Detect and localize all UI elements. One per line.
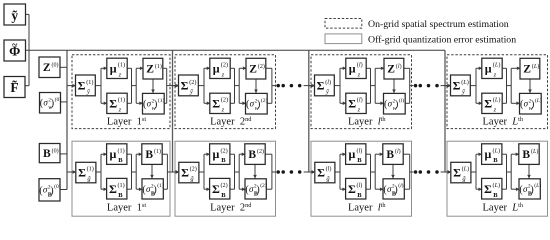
svg-text:): ): [531, 99, 534, 110]
svg-text:(1): (1): [118, 147, 125, 154]
svg-text:B: B: [118, 192, 123, 199]
svg-text:Z: Z: [523, 64, 531, 76]
svg-text:): ): [256, 184, 259, 195]
svg-text:μ: μ: [485, 62, 492, 76]
svg-text:(L): (L): [531, 148, 538, 155]
svg-text:(L): (L): [535, 97, 542, 104]
svg-text:(1): (1): [118, 182, 125, 189]
svg-text:(l): (l): [326, 166, 332, 173]
svg-text:(l): (l): [325, 79, 331, 86]
svg-text:Σ: Σ: [453, 166, 461, 180]
svg-text:μ: μ: [109, 147, 116, 161]
svg-text:Σ: Σ: [348, 182, 356, 196]
svg-text:(L): (L): [461, 79, 469, 86]
svg-text:(L): (L): [493, 182, 501, 189]
svg-text:On-grid spatial spectrum estim: On-grid spatial spectrum estimation: [368, 19, 509, 30]
svg-text:(l): (l): [398, 182, 403, 189]
svg-text:B: B: [145, 149, 153, 161]
svg-text:(l): (l): [357, 97, 363, 104]
svg-text:B: B: [386, 149, 394, 161]
svg-text:Layer lth: Layer lth: [348, 202, 386, 213]
svg-text:(2): (2): [189, 79, 196, 86]
svg-text:Σ: Σ: [181, 79, 189, 93]
svg-text:Layer Lth: Layer Lth: [483, 116, 524, 127]
svg-text:Layer 1st: Layer 1st: [107, 202, 146, 213]
svg-text:(1): (1): [118, 62, 125, 69]
svg-text:(0): (0): [52, 62, 59, 69]
svg-text:B: B: [357, 192, 362, 199]
svg-text:Σ: Σ: [348, 97, 356, 111]
svg-text:(1): (1): [158, 97, 165, 104]
svg-text:(2): (2): [221, 182, 228, 189]
svg-text:Off-grid quantization error es: Off-grid quantization error estimation: [368, 34, 516, 45]
svg-text:Z: Z: [387, 64, 395, 76]
svg-text:μ: μ: [484, 147, 491, 161]
svg-text:(1): (1): [155, 63, 162, 70]
svg-text:Σ: Σ: [181, 166, 189, 180]
svg-text:(0): (0): [55, 96, 62, 103]
svg-text:Σ: Σ: [212, 97, 220, 111]
svg-text:μ: μ: [110, 62, 117, 76]
svg-text:B: B: [221, 157, 226, 164]
svg-text:Σ: Σ: [78, 166, 86, 180]
svg-text:Layer lth: Layer lth: [348, 116, 386, 127]
svg-text:(l): (l): [399, 97, 404, 104]
svg-text:(1): (1): [157, 182, 164, 189]
svg-text:Σ: Σ: [484, 97, 492, 111]
svg-text:B: B: [248, 149, 256, 161]
svg-text:(2): (2): [260, 182, 267, 189]
svg-text:(l): (l): [395, 148, 401, 155]
svg-text:(L): (L): [462, 166, 470, 173]
svg-text:(2): (2): [258, 63, 265, 70]
svg-text:): ): [154, 99, 157, 110]
svg-text:Z: Z: [249, 64, 257, 76]
svg-text:B: B: [522, 149, 530, 161]
svg-text:): ): [257, 99, 260, 110]
svg-text:μ: μ: [348, 147, 355, 161]
svg-text:Σ: Σ: [317, 166, 325, 180]
svg-text:B: B: [43, 148, 51, 160]
svg-text:B: B: [357, 157, 362, 164]
svg-text:z: z: [493, 107, 497, 114]
svg-text:(L): (L): [493, 147, 501, 154]
svg-text:B: B: [493, 192, 498, 199]
svg-text:Layer Lth: Layer Lth: [483, 202, 524, 213]
svg-text:): ): [395, 99, 398, 110]
svg-text:Z: Z: [43, 62, 51, 74]
svg-text:z: z: [357, 107, 361, 114]
svg-text:(L): (L): [493, 62, 501, 69]
svg-text:(L): (L): [532, 63, 539, 70]
svg-text:(1): (1): [118, 97, 125, 104]
svg-text:(L): (L): [534, 182, 541, 189]
svg-text:(L): (L): [493, 97, 501, 104]
svg-text:(2): (2): [221, 97, 228, 104]
svg-text:(2): (2): [190, 166, 197, 173]
svg-text:Σ: Σ: [484, 182, 492, 196]
svg-text:F̃: F̃: [10, 80, 18, 95]
svg-text:(2): (2): [261, 97, 268, 104]
svg-text:): ): [394, 184, 397, 195]
svg-text:B: B: [493, 157, 498, 164]
svg-text:z: z: [221, 107, 225, 114]
svg-text:(0): (0): [52, 147, 59, 154]
svg-text:(2): (2): [221, 147, 228, 154]
svg-text:z: z: [118, 107, 122, 114]
svg-text:(1): (1): [87, 166, 94, 173]
svg-text:Σ: Σ: [109, 97, 117, 111]
svg-text:): ): [51, 98, 54, 109]
svg-text:Σ: Σ: [78, 79, 86, 93]
svg-text:Σ: Σ: [109, 182, 117, 196]
svg-text:Σ: Σ: [317, 79, 325, 93]
svg-text:(l): (l): [357, 62, 363, 69]
svg-text:): ): [50, 185, 53, 196]
svg-text:(l): (l): [357, 182, 363, 189]
svg-text:μ: μ: [213, 62, 220, 76]
svg-text:Σ: Σ: [212, 182, 220, 196]
svg-text:(2): (2): [257, 148, 264, 155]
svg-text:(0): (0): [54, 183, 61, 190]
svg-text:(1): (1): [154, 148, 161, 155]
svg-text:(1): (1): [86, 79, 93, 86]
svg-text:): ): [153, 184, 156, 195]
svg-text:z: z: [357, 72, 361, 79]
svg-text:z: z: [221, 72, 225, 79]
svg-text:z: z: [493, 72, 497, 79]
svg-text:Layer 1st: Layer 1st: [107, 116, 146, 127]
svg-text:B: B: [221, 192, 226, 199]
svg-text:(l): (l): [357, 147, 363, 154]
svg-text:ỹ: ỹ: [11, 8, 18, 23]
svg-text:): ): [530, 184, 533, 195]
svg-text:μ: μ: [212, 147, 219, 161]
svg-text:~: ~: [12, 40, 18, 51]
svg-text:(2): (2): [221, 62, 228, 69]
svg-text:μ: μ: [349, 62, 356, 76]
svg-text:z: z: [118, 72, 122, 79]
svg-text:(l): (l): [396, 63, 402, 70]
svg-text:Σ: Σ: [453, 79, 461, 93]
svg-text:B: B: [118, 157, 123, 164]
svg-text:Z: Z: [146, 64, 154, 76]
